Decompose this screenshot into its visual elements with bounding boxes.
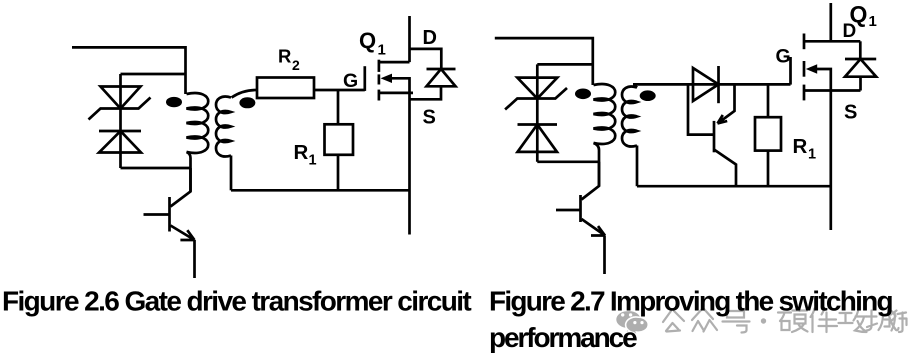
svg-text:R: R	[793, 135, 808, 158]
svg-text:D: D	[843, 21, 857, 42]
wire primary bottom lead	[187, 152, 191, 192]
wire body diode bottom branch	[410, 86, 442, 99]
diode D2 cathode bar	[99, 130, 141, 133]
wire Q1 drain rail	[408, 16, 411, 62]
zener D4 top triangle	[517, 78, 557, 99]
mosfet Q1 channel top dash	[378, 60, 381, 72]
mosfet Q1b body arrow line	[816, 69, 831, 91]
wire R1 top lead	[767, 84, 770, 117]
wire secondary top lead	[633, 84, 637, 87]
diode D5 cathode bar	[518, 123, 558, 126]
wire secondary top lead	[232, 90, 258, 98]
wire gate line	[633, 83, 791, 86]
separator dot	[761, 318, 766, 323]
zener D4 cathode bar with ticks	[505, 88, 567, 110]
zener D1 top triangle	[101, 87, 141, 109]
wire top-left input	[495, 38, 593, 85]
transistor Q3 collector	[714, 150, 736, 187]
wire Q1b drain stub and diode top	[804, 40, 860, 43]
wire Q3 base tie	[688, 84, 713, 134]
transformer T2 primary winding	[594, 84, 616, 144]
svg-text:1: 1	[309, 153, 317, 169]
wire R1 top lead	[337, 90, 340, 124]
wire zener frame top	[121, 73, 186, 76]
svg-text:G: G	[776, 45, 791, 67]
wire R2 to gate	[314, 89, 365, 92]
char hao	[723, 311, 750, 333]
svg-text:1: 1	[808, 147, 816, 163]
mosfet Q1b body arrowhead	[806, 64, 817, 73]
wire zener frame top	[537, 63, 593, 66]
transistor Q2 emitter	[171, 226, 195, 241]
wire Q1b drain rail	[829, 3, 832, 41]
transistor Q2 collector wire	[171, 168, 191, 207]
mosfet Q1b channel top dash	[803, 34, 806, 50]
watermark icon bubbles	[616, 311, 648, 336]
wire primary bottom lead	[594, 143, 600, 186]
wire body diode top branch	[410, 49, 442, 69]
mosfet Q1 body arrowhead	[381, 74, 392, 83]
resistor R1 body	[325, 124, 354, 155]
diode D6 cathode bar	[717, 66, 720, 103]
svg-text:R: R	[278, 46, 291, 67]
diode D7 cathode bar	[845, 58, 876, 61]
zener D1 cathode bar with ticks	[89, 98, 151, 120]
wire Q2 base lead	[144, 213, 170, 216]
svg-text:Figure 2.7 Improving the switc: Figure 2.7 Improving the switching	[489, 285, 893, 316]
svg-text:2: 2	[292, 57, 300, 73]
resistor R1 body fig2.7	[755, 117, 781, 150]
watermark icon eyes	[621, 313, 644, 324]
mosfet Q1 gate bar	[363, 66, 366, 91]
mosfet Q1 body arrow line	[391, 78, 410, 93]
wire Q2 emitter lead	[193, 240, 196, 278]
wire R1 bottom lead	[767, 151, 770, 187]
diode D7 triangle	[845, 59, 876, 77]
wire bottom rail fig2.6	[231, 189, 410, 192]
wire Q1b source stub	[804, 89, 861, 92]
transformer T1 primary winding	[187, 93, 209, 153]
wire secondary bottom lead	[230, 156, 233, 191]
diode D7 cathode lead	[859, 41, 862, 59]
labels figure 2.7	[776, 1, 877, 163]
diode D3 triangle	[427, 69, 456, 86]
svg-text:R: R	[294, 141, 309, 164]
transistor Q2 base bar	[168, 197, 171, 232]
char ying	[778, 308, 808, 333]
watermark text gong-zhong-hao dot ying-jian-gong-cheng-shi (hand-drawn strokes)	[663, 308, 907, 333]
node zener axis	[119, 74, 122, 168]
svg-text:G: G	[343, 70, 358, 92]
transistor Q4 emitter	[582, 219, 606, 236]
diode D5 triangle	[518, 125, 558, 152]
node zener axis	[536, 64, 539, 161]
char zhong	[692, 309, 717, 332]
char shi	[891, 311, 907, 332]
transistor Q3 base bar	[713, 121, 716, 152]
char cheng	[867, 310, 899, 331]
wire diode D7 anode lead	[859, 77, 862, 91]
wire Q1 drain stub	[379, 61, 410, 64]
wire Q4 emitter lead	[603, 236, 606, 275]
wire R1 bottom lead	[337, 155, 340, 191]
svg-text:1: 1	[869, 13, 877, 30]
resistor R2 body	[257, 78, 314, 99]
node secondary dot	[239, 97, 255, 108]
wire zener bottom	[121, 167, 191, 170]
char jian	[811, 308, 838, 332]
wire Q4 base lead	[556, 209, 581, 212]
svg-text:performance: performance	[489, 322, 637, 353]
node primary dot	[575, 89, 591, 100]
transistor Q4 base bar	[579, 195, 582, 222]
svg-text:D: D	[423, 27, 437, 49]
diode D3 cathode bar	[427, 68, 456, 71]
wire Q1 source rail	[408, 93, 411, 235]
wire Q1 source stub	[379, 92, 413, 95]
wire top-left input	[72, 47, 186, 94]
watermark icon and gray text	[616, 308, 906, 336]
svg-text:S: S	[423, 106, 436, 128]
mosfet Q1 channel mid dash	[378, 74, 381, 84]
wire zener bottom	[537, 160, 599, 163]
node primary dot	[166, 97, 182, 107]
transistor Q3 emitter	[718, 84, 735, 123]
wire Q1b source rail	[829, 91, 832, 231]
labels figure 2.6	[278, 27, 437, 168]
diode D6 triangle	[693, 68, 719, 101]
transformer T1 secondary winding	[216, 96, 231, 156]
char gong2	[839, 309, 867, 333]
char gong	[663, 311, 684, 332]
svg-text:Q: Q	[359, 28, 376, 53]
svg-text:Figure 2.6 Gate drive transfor: Figure 2.6 Gate drive transformer circui…	[2, 285, 471, 316]
wire secondary bottom lead	[636, 146, 639, 187]
mosfet Q1b channel bottom dash	[803, 85, 806, 101]
svg-text:1: 1	[378, 42, 386, 59]
mosfet Q1b gate bar	[789, 57, 792, 85]
mosfet Q1 channel bottom dash	[378, 90, 381, 101]
diode D2 triangle	[99, 131, 141, 153]
mosfet Q1b channel mid dash	[803, 61, 806, 77]
transistor Q4 collector wire	[582, 162, 600, 200]
transformer T2 secondary winding	[622, 86, 637, 146]
wire bottom rail fig2.7	[637, 185, 831, 188]
svg-text:S: S	[844, 102, 857, 124]
node secondary dot	[640, 90, 656, 101]
